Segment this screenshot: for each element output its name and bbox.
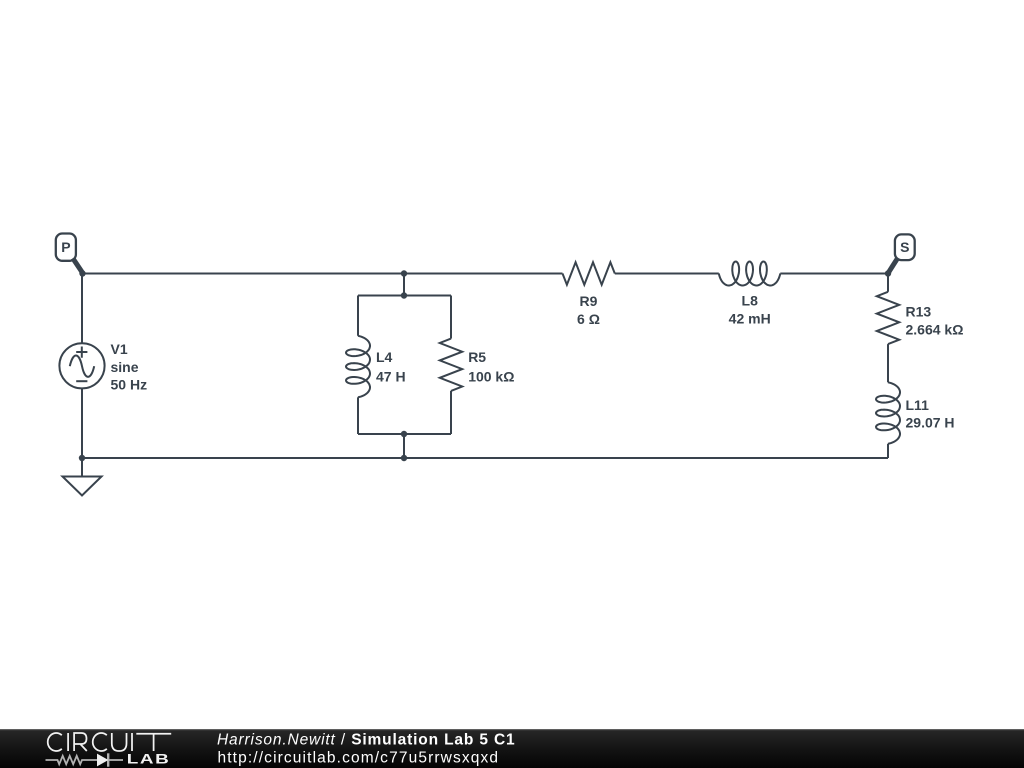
- svg-text:R9: R9: [580, 293, 598, 309]
- svg-text:100 kΩ: 100 kΩ: [468, 368, 514, 384]
- svg-text:L4: L4: [376, 349, 393, 365]
- svg-text:29.07 H: 29.07 H: [906, 415, 955, 431]
- svg-text:42 mH: 42 mH: [729, 311, 771, 327]
- svg-text:50 Hz: 50 Hz: [111, 377, 148, 393]
- svg-text:L11: L11: [906, 397, 930, 413]
- svg-text:LAB: LAB: [127, 751, 171, 767]
- svg-text:P: P: [61, 239, 70, 255]
- svg-text:R5: R5: [468, 349, 486, 365]
- svg-text:Harrison.Newitt / Simulation L: Harrison.Newitt / Simulation Lab 5 C1: [217, 731, 515, 748]
- svg-text:S: S: [900, 239, 909, 255]
- svg-text:sine: sine: [111, 359, 139, 375]
- svg-text:L8: L8: [742, 293, 759, 309]
- svg-text:R13: R13: [906, 303, 932, 319]
- svg-text:2.664 kΩ: 2.664 kΩ: [906, 322, 964, 338]
- svg-text:6 Ω: 6 Ω: [577, 311, 600, 327]
- svg-text:V1: V1: [111, 341, 128, 357]
- svg-text:http://circuitlab.com/c77u5rrw: http://circuitlab.com/c77u5rrwsxqxd: [218, 749, 500, 766]
- svg-text:47 H: 47 H: [376, 368, 406, 384]
